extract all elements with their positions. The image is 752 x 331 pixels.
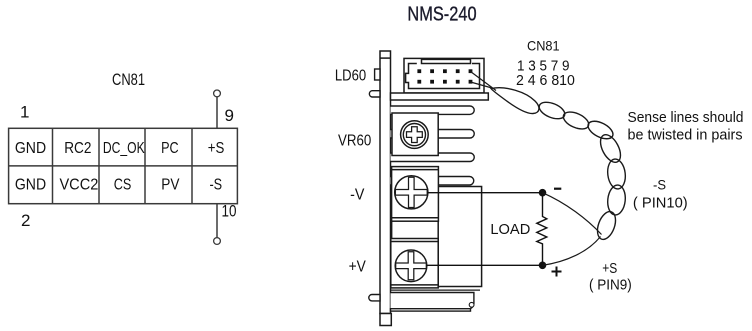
label LD60 xyxy=(335,67,366,84)
connector pins row 2 xyxy=(417,80,472,84)
cell pin3 RC2 xyxy=(64,140,91,157)
connector shroud inner wall xyxy=(406,59,480,88)
connector base rail xyxy=(391,93,489,100)
svg-text:+S: +S xyxy=(208,140,225,157)
front panel edge between terminals xyxy=(391,221,393,238)
CN81 pinout table grid xyxy=(9,128,238,203)
plus polarity mark xyxy=(552,267,562,277)
label +V xyxy=(349,258,366,275)
svg-text:DC_OK: DC_OK xyxy=(103,140,145,157)
svg-text:PV: PV xyxy=(161,177,179,194)
svg-text:1: 1 xyxy=(20,103,29,122)
svg-text:CN81: CN81 xyxy=(527,38,560,54)
bracket foot xyxy=(380,314,391,326)
heatsink fin 4 xyxy=(391,177,474,186)
minus polarity mark xyxy=(554,188,561,190)
heatsink fin 1 xyxy=(391,106,475,114)
svg-text:-S: -S xyxy=(653,176,666,192)
cell pin5 DC_OK xyxy=(103,140,145,157)
label CN81 right xyxy=(527,38,560,54)
label VR60 xyxy=(338,132,371,149)
svg-text:VR60: VR60 xyxy=(338,132,371,149)
svg-text:GND: GND xyxy=(15,177,46,194)
sense wire +S to plus node xyxy=(543,237,601,266)
svg-text:GND: GND xyxy=(15,140,46,157)
pin 9 terminal circle xyxy=(214,90,221,97)
lower cover box xyxy=(391,290,481,309)
label LOAD xyxy=(490,222,530,238)
svg-text:-S: -S xyxy=(209,177,222,194)
wire table to pin10 xyxy=(216,204,218,238)
label -V xyxy=(350,187,365,204)
wire +V to load xyxy=(426,264,542,266)
terminal -V block xyxy=(392,167,439,222)
mounting plate bracket xyxy=(380,51,391,314)
terminal +V block xyxy=(391,239,438,288)
heatsink fin 3 xyxy=(391,153,475,162)
connector pins row 1 xyxy=(417,69,472,73)
svg-text:CS: CS xyxy=(114,177,132,194)
svg-text:( PIN10): ( PIN10) xyxy=(633,195,688,212)
connector CN81 table title xyxy=(112,71,145,89)
bottom plate bar xyxy=(391,309,471,311)
cell pin2 GND xyxy=(15,177,46,194)
wire pin9 to table xyxy=(216,97,218,129)
twisted pair ellipse chain xyxy=(537,99,627,242)
svg-text:( PIN9): ( PIN9) xyxy=(589,277,632,294)
sense wire -S to minus node xyxy=(543,193,602,235)
title NMS-240 xyxy=(407,4,476,26)
pin 10 terminal circle xyxy=(214,238,221,245)
cell pin7 PC xyxy=(161,140,179,157)
wire -V to load xyxy=(427,192,542,194)
label +S xyxy=(602,261,617,277)
pin 9 label xyxy=(225,106,234,125)
svg-text:PC: PC xyxy=(161,140,179,157)
svg-text:9: 9 xyxy=(225,106,234,125)
svg-text:2 4 6 810: 2 4 6 810 xyxy=(516,73,575,89)
sense wire from pin10 xyxy=(471,82,493,88)
terminal +V screw circle xyxy=(395,250,427,282)
bottom mounting peg xyxy=(369,295,380,301)
resistor LOAD xyxy=(537,196,547,262)
cell pin6 CS xyxy=(114,177,132,194)
svg-text:LOAD: LOAD xyxy=(490,222,530,238)
svg-text:VCC2: VCC2 xyxy=(59,177,98,194)
bracket left tab xyxy=(375,69,380,80)
svg-text:CN81: CN81 xyxy=(112,71,145,89)
cell pin9 +S xyxy=(208,140,225,157)
cell pin8 PV xyxy=(161,177,179,194)
svg-text:-V: -V xyxy=(350,187,365,204)
svg-text:+S: +S xyxy=(602,261,617,277)
pin 1 label xyxy=(20,103,29,122)
terminal -V screw circle xyxy=(395,176,428,209)
cell pin1 GND xyxy=(15,140,46,157)
potentiometer phillips cross xyxy=(407,127,423,143)
label -S xyxy=(653,176,666,192)
svg-text:2: 2 xyxy=(21,211,30,230)
terminal -V screw slot cross xyxy=(395,177,427,207)
connector shroud outer xyxy=(404,58,484,93)
note sense lines line1 xyxy=(628,109,744,126)
svg-text:NMS-240: NMS-240 xyxy=(407,4,476,26)
case body xyxy=(438,187,481,287)
label even pins 2 4 6 810 xyxy=(516,73,575,89)
terminal +V screw slot cross xyxy=(396,252,427,280)
svg-text:RC2: RC2 xyxy=(64,140,91,157)
heatsink fin 2 xyxy=(391,130,475,139)
label -S pin10 xyxy=(633,195,688,212)
cell pin10 -S xyxy=(209,177,222,194)
pin 2 label xyxy=(21,211,30,230)
pin 10 label xyxy=(222,202,237,221)
top mounting peg xyxy=(369,91,380,97)
svg-text:LD60: LD60 xyxy=(335,67,366,84)
junction node plus xyxy=(539,262,547,270)
twisted pair first loop xyxy=(491,88,539,114)
cell pin4 VCC2 xyxy=(59,177,98,194)
sense wire from pin9 xyxy=(471,72,497,91)
svg-text:+V: +V xyxy=(349,258,366,275)
label odd pins 1 3 5 7 9 xyxy=(517,59,570,75)
potentiometer inner circle xyxy=(403,124,425,146)
svg-text:be twisted in pairs: be twisted in pairs xyxy=(628,126,743,143)
potentiometer VR60 block xyxy=(392,113,438,156)
note sense lines line2 xyxy=(628,126,743,143)
potentiometer outer circle xyxy=(401,121,429,149)
junction node minus xyxy=(539,189,547,197)
svg-text:Sense lines should: Sense lines should xyxy=(628,109,744,126)
label +S pin9 xyxy=(589,277,632,294)
